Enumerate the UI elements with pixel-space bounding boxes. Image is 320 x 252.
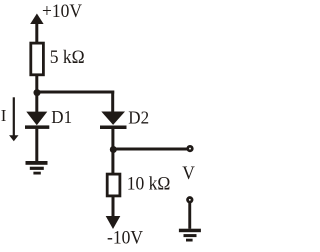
- ground left: [26, 161, 48, 175]
- svg-text:+10V: +10V: [42, 1, 82, 22]
- wire reference terminal to ground: [188, 203, 191, 229]
- node A junction dot: [34, 89, 41, 96]
- wire node B to resistor R2: [111, 150, 114, 173]
- svg-text:I: I: [1, 106, 7, 125]
- reference terminal: [188, 198, 193, 203]
- -10V supply arrow: [106, 197, 121, 229]
- svg-text:D1: D1: [51, 107, 72, 128]
- output terminal: [188, 146, 193, 151]
- svg-text:V: V: [182, 162, 195, 183]
- resistor R1: [31, 43, 44, 75]
- current arrow I: [9, 97, 18, 141]
- wire resistor R1 to D1: [35, 76, 38, 113]
- node B junction dot: [110, 146, 117, 153]
- +10V supply arrow: [30, 14, 43, 43]
- svg-text:-10V: -10V: [107, 227, 143, 248]
- resistor R2: [107, 174, 120, 196]
- svg-text:5 kΩ: 5 kΩ: [50, 46, 85, 67]
- wire D2 to node B: [111, 128, 114, 150]
- diode D2: [100, 112, 127, 130]
- wire node B to output terminal: [113, 148, 187, 151]
- svg-text:D2: D2: [128, 107, 149, 128]
- diode D1: [25, 112, 49, 129]
- svg-text:10 kΩ: 10 kΩ: [127, 173, 171, 194]
- wire D1 to ground: [35, 129, 38, 162]
- wire top horizontal: [35, 91, 114, 94]
- ground right: [179, 229, 201, 242]
- wire right vertical to D2: [111, 91, 114, 113]
